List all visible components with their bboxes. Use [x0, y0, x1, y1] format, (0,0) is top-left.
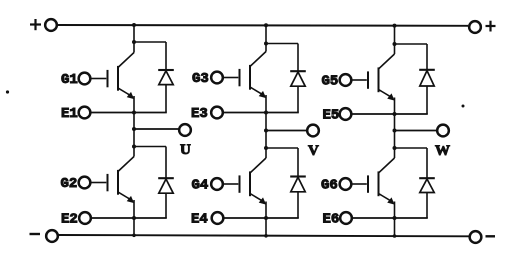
- svg-text:G3: G3: [192, 71, 209, 87]
- svg-text:E1: E1: [61, 106, 78, 122]
- svg-text:E6: E6: [323, 212, 340, 228]
- svg-text:E3: E3: [191, 106, 208, 122]
- svg-text:G5: G5: [322, 74, 339, 90]
- svg-text:G4: G4: [192, 178, 209, 194]
- svg-text:E5: E5: [323, 108, 340, 124]
- svg-text:E2: E2: [61, 212, 78, 228]
- svg-text:U: U: [180, 142, 191, 158]
- svg-text:G2: G2: [61, 176, 78, 192]
- svg-text:E4: E4: [191, 212, 208, 228]
- svg-text:W: W: [435, 143, 450, 159]
- svg-text:V: V: [308, 143, 319, 159]
- svg-text:G6: G6: [321, 178, 338, 194]
- svg-text:G1: G1: [61, 72, 78, 88]
